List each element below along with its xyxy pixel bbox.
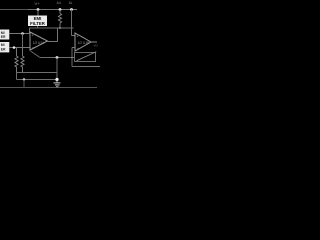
wire U1B noninverting input — [72, 35, 76, 37]
input box 2 (clipped at left edge) — [0, 42, 9, 52]
resistor R1 — [58, 10, 61, 29]
op-amp U1A — [30, 32, 48, 50]
wire drop to op-amp U1A noninverting input — [29, 28, 31, 34]
svg-text:−: − — [32, 46, 34, 50]
wire bottom return rail y87.5 — [0, 87, 97, 89]
resistor R3 — [21, 48, 24, 73]
svg-text:1k: 1k — [69, 1, 73, 5]
potentiometer P1 — [75, 52, 97, 62]
node supply tap to EMI filter — [37, 8, 40, 11]
node pot left terminal junction — [71, 57, 73, 59]
node R1 bottom junction — [59, 27, 61, 29]
svg-text:−: − — [77, 46, 79, 50]
wire feedback net y57.5 — [40, 57, 75, 59]
svg-text:MI: MI — [1, 43, 5, 47]
wire box2 output to U1A inverting input — [9, 47, 30, 49]
svg-text:1/2 U1A: 1/2 U1A — [33, 41, 45, 45]
svg-text:1/2 U1B: 1/2 U1B — [78, 41, 90, 45]
node ground junction — [55, 78, 58, 81]
EMI filter box U2 — [28, 16, 47, 27]
svg-text:V+: V+ — [35, 1, 41, 6]
svg-text:MI: MI — [1, 31, 5, 35]
wire divider bottom rail y72.5 — [17, 72, 58, 74]
node top of reference divider wire — [70, 8, 73, 11]
wire diagonal feedback from U1A inverting corner — [31, 51, 41, 58]
svg-text:+: + — [77, 35, 79, 39]
svg-text:A4: A4 — [57, 1, 61, 5]
svg-text:VO: VO — [94, 43, 99, 47]
wire U1B output — [91, 41, 97, 43]
wire EMI filter output stub — [37, 26, 39, 28]
resistor R2 — [15, 48, 18, 73]
wire box1 output to U1A noninverting input — [9, 33, 30, 35]
ground — [54, 80, 61, 87]
svg-text:FILTER: FILTER — [30, 21, 46, 26]
input box 1 (clipped at left edge) — [0, 30, 9, 40]
wire V+ top rail — [0, 9, 28, 11]
node top of R1 — [59, 8, 62, 11]
node feedback to ground tap — [56, 56, 59, 59]
wire jog down at left — [16, 73, 18, 80]
wire ground rail y79.5 — [17, 79, 58, 81]
svg-text:+: + — [32, 34, 34, 38]
svg-text:ER: ER — [1, 48, 6, 52]
node A on noninverting line — [21, 32, 24, 35]
wire U1B inverting input — [72, 47, 75, 49]
wire return tap down — [23, 80, 25, 88]
svg-text:ER: ER — [1, 35, 6, 39]
node B on inverting line — [13, 46, 16, 49]
wire inverting input down to output rail — [71, 48, 73, 67]
wire filtered supply net y28 — [30, 27, 74, 29]
wire U1A output up to supply net — [57, 28, 59, 42]
op-amp U1B — [75, 33, 91, 51]
wire node to EMI filter input — [37, 10, 39, 16]
wire ground tap vertical — [56, 58, 58, 80]
wire U1A output — [48, 41, 58, 43]
wire node A down to divider — [22, 34, 24, 48]
wire rail node down to U1B noninverting input — [71, 10, 73, 36]
node return tap — [23, 78, 25, 80]
wire lower right rail y66.5 — [72, 66, 100, 68]
